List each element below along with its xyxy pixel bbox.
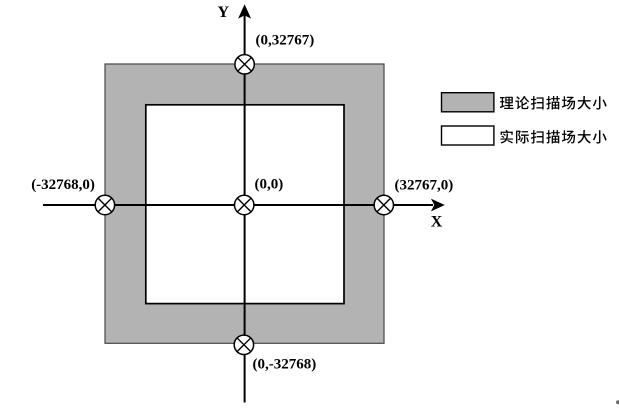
svg-text:(32767,0): (32767,0) <box>395 178 454 194</box>
svg-text:(-32768,0): (-32768,0) <box>31 177 95 193</box>
actual scan field square (white inner) <box>146 105 344 304</box>
svg-text:(0,32767): (0,32767) <box>256 33 315 49</box>
svg-text:(0,-32768): (0,-32768) <box>253 357 317 373</box>
Y axis line <box>244 15 246 403</box>
node marker right (32767,0) <box>374 195 393 214</box>
svg-text:X: X <box>431 214 443 231</box>
legend text: theoretical scan field size <box>500 96 607 109</box>
legend text: actual scan field size <box>500 130 606 144</box>
Y axis arrowhead <box>238 4 251 18</box>
small mark bottom-right <box>616 400 619 404</box>
svg-text:(0,0): (0,0) <box>255 177 284 193</box>
node marker bottom (0,-32768) <box>234 335 253 354</box>
legend box: theoretical scan field <box>442 93 494 112</box>
X axis line <box>43 204 433 206</box>
node marker top (0,32767) <box>235 55 254 74</box>
theoretical scan field square (gray) <box>105 64 384 343</box>
X axis arrowhead <box>431 199 445 212</box>
svg-text:Y: Y <box>218 4 230 21</box>
legend box: actual scan field <box>442 126 494 145</box>
node marker origin (0,0) <box>235 195 254 214</box>
node marker left (-32768,0) <box>95 195 114 214</box>
